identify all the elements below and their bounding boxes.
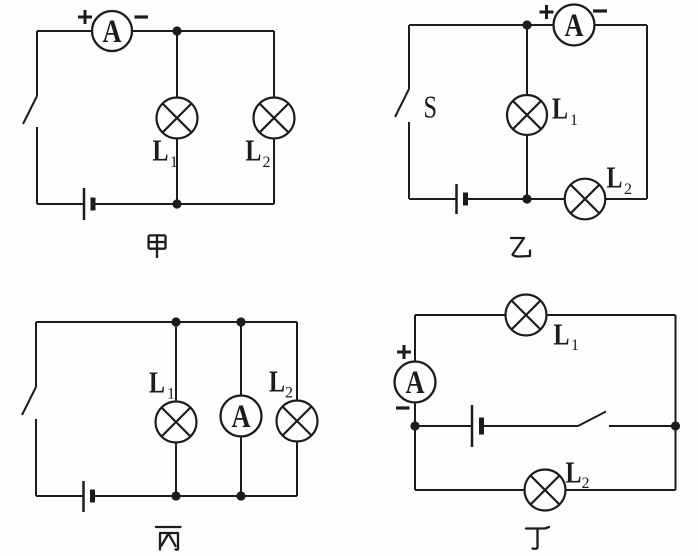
wire: 甲 L1 branch upper [176,31,178,98]
svg-text:L: L [153,133,169,168]
wire: 乙 right side [646,25,648,199]
wire: 甲 top-left horizontal, switch corner to ammeter [37,30,92,32]
label L1 (丁) [554,317,580,355]
svg-text:L: L [245,133,261,168]
switch S (甲, open blade) [23,96,37,124]
wire: 丁 middle junction to battery [415,425,472,427]
svg-text:2: 2 [582,475,590,492]
svg-text:L: L [607,160,623,195]
wire: 丙 top [36,321,297,323]
lamp L1 (乙) [507,95,547,135]
label L2 (丙) [269,364,293,402]
junction node (甲 top) [172,26,181,35]
label 乙 (hand-drawn glyph) [511,238,530,257]
battery (丁) [472,405,482,447]
wire: 丙 L2 branch lower [296,442,298,497]
svg-text:A: A [103,14,122,50]
wire: 丙 battery to bottom-right corner [93,495,298,497]
wire: 乙 middle branch lower [526,135,528,199]
wire: 甲 left side upper [36,31,38,96]
junction node (乙 bottom) [522,194,531,203]
lamp L1 (甲) [157,98,198,139]
junction node (丙 bottom, L1 branch) [171,491,180,500]
wire: 丁 switch to right junction [609,425,676,427]
svg-text:L: L [552,91,568,126]
wire: 丁 top left segment [415,314,506,316]
wire: 乙 top left corner to ammeter, through junction [409,24,554,26]
svg-text:L: L [566,454,582,489]
lamp L2 (丁) [525,470,566,511]
svg-text:S: S [424,89,438,125]
switch S (丙, open blade) [22,387,36,415]
lamp L2 (乙) [565,179,606,220]
svg-text:1: 1 [570,112,578,129]
junction node (乙 top) [522,20,531,29]
wire: 甲 L2 branch lower [273,139,275,205]
ammeter A (甲) [92,11,132,51]
label L1 (丙) [149,365,175,403]
lamp L2 (甲) [254,98,295,139]
wire: 丙 L1 branch lower [175,443,177,497]
battery (甲) [84,188,93,220]
polarity − (乙 ammeter) [593,9,607,12]
svg-text:A: A [406,365,425,401]
wire: 丙 ammeter branch lower [240,437,242,497]
wire: 甲 L2 branch upper [273,31,275,98]
wire: 甲 bottom left to battery [37,203,84,205]
polarity + (甲 ammeter) [78,10,92,24]
wire: 甲 battery to bottom-right corner [93,203,274,205]
wire: 丁 bottom left segment [415,489,525,491]
wire: 丁 right side [675,315,677,490]
polarity − (甲 ammeter) [135,15,149,18]
wire: 乙 left side upper [408,25,410,89]
wire: 丁 top right segment [547,314,676,316]
wire: 丙 L2 branch upper [296,322,298,401]
wire: 乙 middle branch upper [526,25,528,95]
svg-text:1: 1 [571,337,579,354]
wire: 丁 ammeter to middle junction [414,403,416,427]
battery (乙) [457,184,466,214]
wire: 乙 ammeter to top-right corner [595,24,648,26]
wire: 乙 bottom left to battery [409,198,457,200]
svg-text:L: L [149,365,165,400]
junction node (丙 bottom, ammeter branch) [236,491,245,500]
polarity + (乙 ammeter) [540,5,554,19]
wire: 乙 lamp L2 to bottom-right corner [605,198,647,200]
polarity − (丁 ammeter) [396,406,410,409]
wire: 乙 battery to lamp L2 [466,198,565,200]
label L1 (乙) [552,91,578,129]
junction node (甲 bottom) [172,199,181,208]
wire: 甲 left side lower [36,127,38,204]
junction node (丙 top, ammeter branch) [236,317,245,326]
wire: 丁 left side lower [414,426,416,490]
label L2 (甲) [245,133,270,172]
lamp L2 (丙) [277,401,318,442]
wire: 丙 L1 branch upper [175,322,177,402]
svg-text:2: 2 [263,154,271,171]
svg-text:1: 1 [167,386,175,403]
wire: 甲 L1 branch lower [176,139,178,205]
wire: 丙 bottom left to battery [36,495,84,497]
label L2 (乙) [607,160,633,199]
junction node (丁 middle left) [410,421,419,430]
label L1 (甲) [153,133,179,172]
label L2 (丁) [566,454,590,491]
lamp L1 (丁) [506,295,547,336]
svg-text:L: L [269,364,285,399]
svg-text:L: L [554,317,570,352]
wire: 乙 left side lower [408,122,410,199]
battery (丙) [84,481,93,512]
svg-text:2: 2 [624,181,632,198]
svg-text:2: 2 [285,385,293,402]
svg-text:A: A [232,399,251,435]
wire: 丙 left side upper [35,322,37,387]
junction node (丙 top, L1 branch) [171,317,180,326]
lamp L1 (丙) [156,402,197,443]
polarity + (丁 ammeter) [397,345,411,359]
switch S (乙, open blade) [395,89,409,117]
wire: 丙 ammeter branch upper [240,322,242,396]
junction node (丁 middle right) [671,421,680,430]
ammeter A (丙) [221,396,262,437]
label 甲 (hand-drawn glyph) [149,235,166,258]
switch (丁, open blade) [578,412,606,427]
ammeter A (乙) [554,5,595,46]
wire: 丙 left side lower [35,419,37,496]
wire: 甲 ammeter to top-right corner [132,30,274,32]
wire: 丁 bottom right segment [566,489,676,491]
ammeter A (丁) [395,362,436,403]
wire: 丁 left side upper [414,315,416,362]
svg-text:A: A [565,8,584,44]
label 丙 (hand-drawn glyph) [156,527,181,550]
label 丁 (hand-drawn glyph) [526,527,549,549]
wire: 丁 battery to switch [482,425,579,427]
